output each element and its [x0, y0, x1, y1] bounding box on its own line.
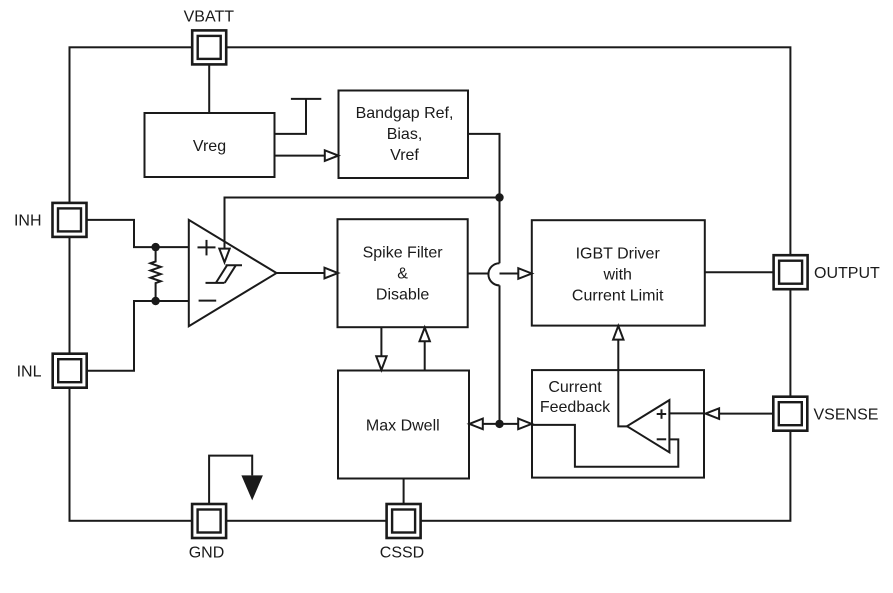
svg-text:VBATT: VBATT: [184, 9, 235, 26]
svg-text:Max Dwell: Max Dwell: [366, 417, 440, 434]
svg-text:Disable: Disable: [376, 287, 429, 304]
svg-text:&: &: [397, 266, 408, 283]
svg-text:Spike Filter: Spike Filter: [363, 245, 444, 262]
svg-text:Bias,: Bias,: [387, 126, 423, 143]
svg-text:Vref: Vref: [390, 147, 419, 164]
svg-text:Current Limit: Current Limit: [572, 288, 664, 305]
svg-text:INL: INL: [17, 363, 42, 380]
svg-text:Bandgap Ref,: Bandgap Ref,: [356, 105, 454, 122]
svg-text:Feedback: Feedback: [540, 399, 611, 416]
svg-text:Current: Current: [548, 379, 602, 396]
svg-text:INH: INH: [14, 213, 42, 230]
svg-text:CSSD: CSSD: [380, 545, 424, 562]
svg-text:VSENSE: VSENSE: [814, 406, 879, 423]
svg-text:GND: GND: [189, 545, 225, 562]
svg-text:Vreg: Vreg: [193, 138, 226, 155]
svg-text:with: with: [602, 267, 631, 284]
svg-text:IGBT Driver: IGBT Driver: [576, 245, 661, 262]
svg-text:OUTPUT: OUTPUT: [814, 265, 880, 282]
